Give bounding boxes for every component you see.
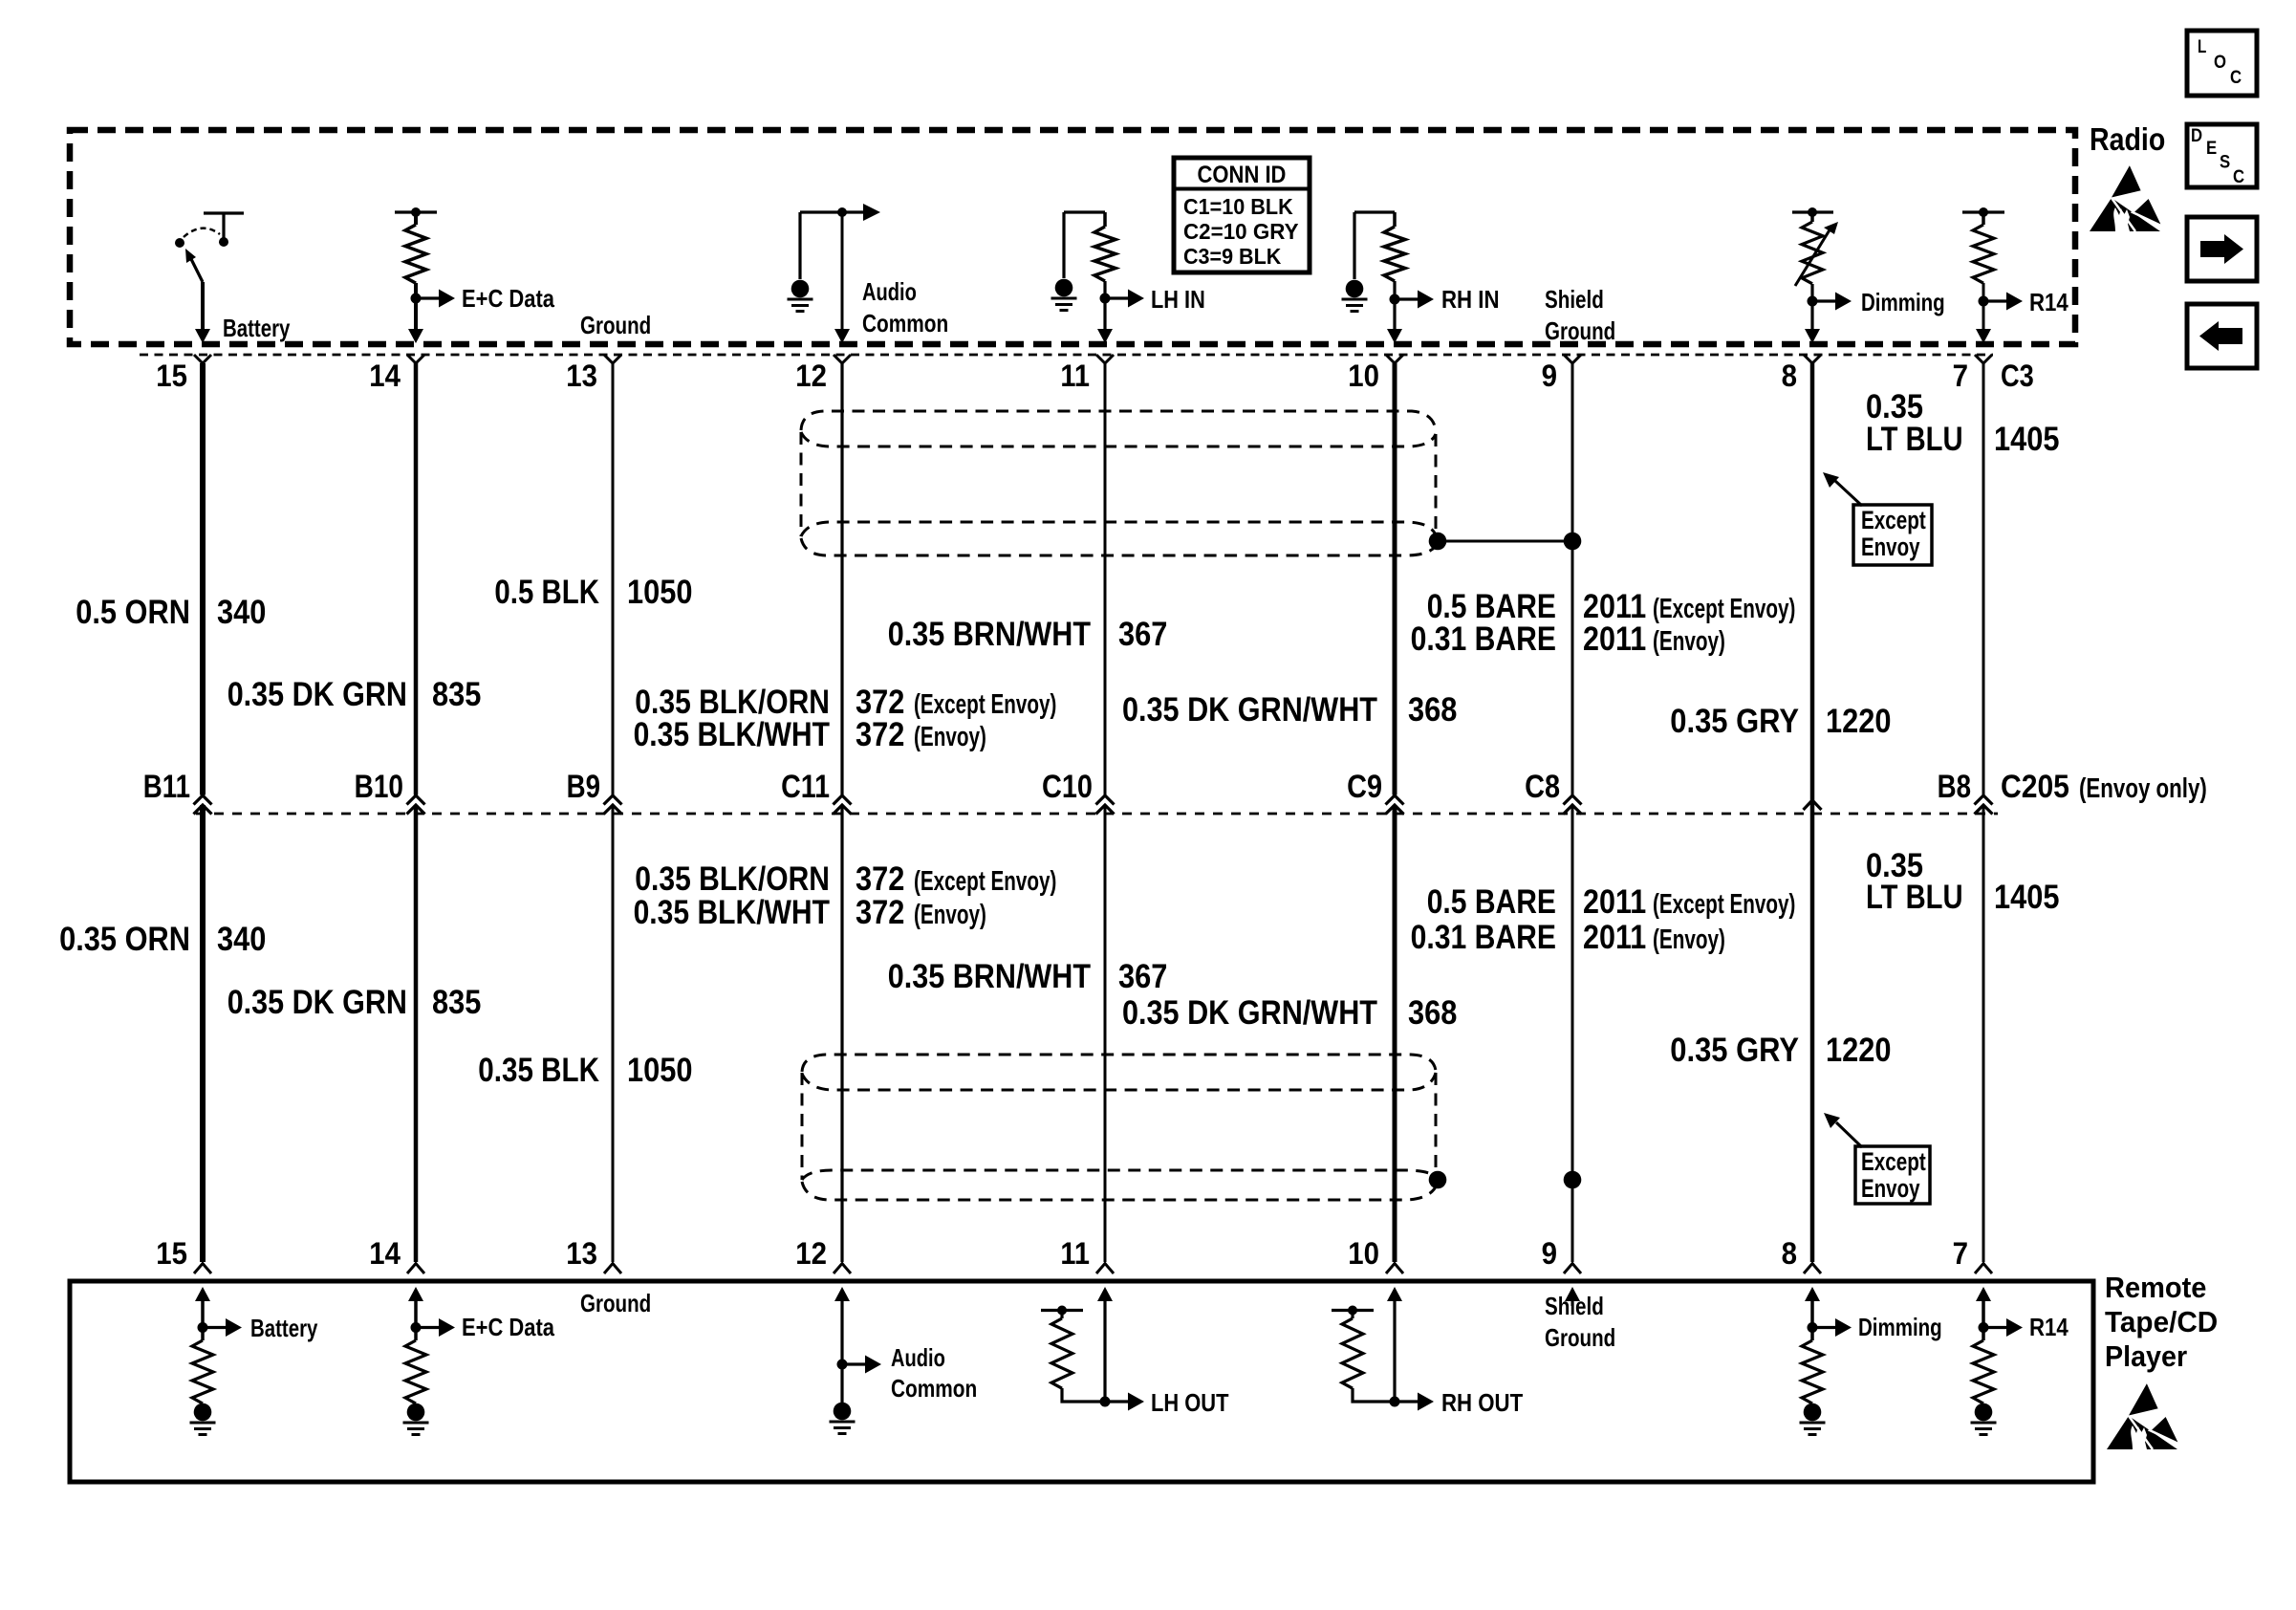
wire pin 9 C205 to player xyxy=(1571,805,1574,1262)
svg-text:11: 11 xyxy=(1060,359,1090,393)
svg-text:C1=10 BLK: C1=10 BLK xyxy=(1183,194,1293,219)
svg-text:Remote: Remote xyxy=(2105,1271,2206,1304)
resistor player E+C xyxy=(405,1340,426,1403)
wire pin 10 C205 to player xyxy=(1393,805,1397,1262)
connector chevron pin 15 (bottom) xyxy=(194,1264,211,1274)
svg-text:Except: Except xyxy=(1861,1147,1926,1176)
wire shield to pin 9 (top) xyxy=(1438,540,1572,543)
svg-text:2011: 2011 xyxy=(1583,620,1646,658)
shield drain dot (bottom) xyxy=(1429,1171,1447,1189)
Radio component dashed box xyxy=(70,130,2075,344)
Battery branch (player) xyxy=(201,1296,205,1340)
back arrow box xyxy=(2187,304,2257,368)
connector chevron pin 7 (bottom) xyxy=(1975,1264,1992,1274)
wire pin 9 radio to C205 xyxy=(1571,363,1574,795)
wire pin 12 C205 to player xyxy=(840,805,843,1262)
svg-text:Common: Common xyxy=(862,309,948,337)
dimming variable resistor (radio pin 8) xyxy=(1792,210,1833,213)
connector chevron pin 9 (bottom) xyxy=(1564,1264,1581,1274)
forward arrow box xyxy=(2187,217,2257,281)
callout arrow to wire 8 (bottom) xyxy=(1836,1122,1862,1147)
svg-text:368: 368 xyxy=(1408,994,1457,1032)
connector chevrons wire 7 (middle) xyxy=(1975,795,1993,805)
R14 resistor (radio pin 7) xyxy=(1962,210,2004,213)
svg-text:0.5 ORN: 0.5 ORN xyxy=(76,594,190,631)
svg-text:0.35 BLK/WHT: 0.35 BLK/WHT xyxy=(634,716,830,753)
wire stub player pin 9 xyxy=(1571,1296,1574,1306)
ESD sensitive symbol (player) xyxy=(2107,1382,2180,1449)
svg-text:0.35 DK GRN/WHT: 0.35 DK GRN/WHT xyxy=(1122,994,1377,1032)
svg-text:0.35 DK GRN: 0.35 DK GRN xyxy=(227,676,407,713)
connector chevron pin 14 (bottom) xyxy=(407,1264,424,1274)
connector fork pin 10 (top) xyxy=(1386,355,1403,363)
wire arrow into player pin 15 xyxy=(195,1287,210,1301)
svg-text:C11: C11 xyxy=(781,769,830,805)
wire arrow into player pin 11 xyxy=(1097,1287,1113,1301)
svg-text:C: C xyxy=(2230,68,2242,88)
ground player battery xyxy=(194,1403,212,1422)
resistor player R14 xyxy=(1973,1340,1994,1403)
svg-text:C3=9 BLK: C3=9 BLK xyxy=(1183,244,1282,269)
connector fork pin 15 (top) xyxy=(194,355,211,363)
svg-text:15: 15 xyxy=(156,1236,187,1271)
svg-text:835: 835 xyxy=(432,984,481,1021)
wire arrow into player pin 8 xyxy=(1805,1287,1820,1301)
wire pin 14 radio to C205 xyxy=(414,363,419,795)
svg-text:Envoy: Envoy xyxy=(1861,533,1920,561)
svg-text:0.35 GRY: 0.35 GRY xyxy=(1670,1032,1799,1069)
svg-text:8: 8 xyxy=(1782,1236,1797,1271)
svg-text:B9: B9 xyxy=(567,769,600,805)
svg-text:(Except Envoy): (Except Envoy) xyxy=(914,866,1056,897)
svg-text:E: E xyxy=(2206,139,2217,159)
LH IN branch arrow xyxy=(1100,294,1111,304)
junction dot on wire 9 (top) xyxy=(1564,533,1582,551)
svg-text:2011: 2011 xyxy=(1583,883,1646,921)
wire pin 15 radio to C205 xyxy=(200,363,206,795)
svg-text:(Except Envoy): (Except Envoy) xyxy=(1653,594,1795,624)
svg-text:10: 10 xyxy=(1348,359,1379,393)
LOC box xyxy=(2187,31,2257,96)
shielded cable drawing (top) xyxy=(801,411,1436,432)
connector chevron wire 8 (middle) xyxy=(1804,800,1822,810)
svg-text:367: 367 xyxy=(1118,616,1167,653)
wire pin 12 radio to C205 xyxy=(840,363,843,795)
svg-text:0.31 BARE: 0.31 BARE xyxy=(1411,919,1556,956)
svg-text:1405: 1405 xyxy=(1994,421,2060,458)
svg-text:L: L xyxy=(2198,37,2207,57)
svg-text:S: S xyxy=(2220,153,2230,173)
connector chevrons wire 9 (middle) xyxy=(1564,795,1582,805)
connector chevrons wire 10 (middle) xyxy=(1386,795,1404,805)
svg-text:9: 9 xyxy=(1542,1236,1557,1271)
svg-text:10: 10 xyxy=(1348,1236,1379,1271)
wire pin 10 radio to C205 xyxy=(1393,363,1397,795)
R14 branch arrow xyxy=(1979,296,1989,307)
svg-text:0.35 ORN: 0.35 ORN xyxy=(59,921,190,958)
Except Envoy callout box (top) xyxy=(1853,505,1932,565)
svg-text:B11: B11 xyxy=(143,769,190,805)
svg-text:Shield: Shield xyxy=(1545,1292,1604,1320)
wire arrow into player pin 14 xyxy=(408,1287,423,1301)
svg-text:CONN ID: CONN ID xyxy=(1198,162,1287,188)
DESC box xyxy=(2187,124,2257,187)
svg-text:14: 14 xyxy=(369,359,401,393)
resistor player dimming xyxy=(1802,1340,1823,1403)
svg-text:0.35 DK GRN: 0.35 DK GRN xyxy=(227,984,407,1021)
svg-text:12: 12 xyxy=(795,359,827,393)
RH IN branch arrow xyxy=(1390,294,1400,305)
connector chevrons wire 13 (middle) xyxy=(604,795,622,805)
svg-text:0.35 BLK/WHT: 0.35 BLK/WHT xyxy=(634,894,830,931)
shield drain dot (top) xyxy=(1429,533,1447,551)
svg-text:E+C Data: E+C Data xyxy=(462,284,554,313)
svg-text:Radio: Radio xyxy=(2090,121,2165,157)
svg-text:372: 372 xyxy=(856,894,904,931)
ground player R14 xyxy=(1975,1403,1993,1422)
svg-text:11: 11 xyxy=(1060,1236,1090,1271)
svg-text:Except: Except xyxy=(1861,506,1926,534)
Radio connector dashed line (top) xyxy=(140,354,1993,357)
svg-text:C8: C8 xyxy=(1525,769,1560,805)
shielded cable drawing (bottom) xyxy=(802,1055,1436,1072)
svg-text:Audio: Audio xyxy=(891,1343,945,1372)
svg-text:13: 13 xyxy=(566,359,597,393)
Dimming branch (player pin 8) xyxy=(1810,1296,1814,1340)
audio common ground (radio) xyxy=(798,212,801,279)
svg-text:0.35 BRN/WHT: 0.35 BRN/WHT xyxy=(888,616,1091,653)
CONN ID table box xyxy=(1174,158,1310,272)
svg-text:0.35 BRN/WHT: 0.35 BRN/WHT xyxy=(888,958,1091,995)
svg-text:372: 372 xyxy=(856,860,904,898)
svg-text:15: 15 xyxy=(156,359,187,393)
E+C Data branch (player) xyxy=(414,1296,418,1340)
svg-text:LT BLU: LT BLU xyxy=(1866,879,1963,916)
svg-text:Envoy: Envoy xyxy=(1861,1174,1920,1203)
svg-text:LH OUT: LH OUT xyxy=(1151,1388,1229,1417)
svg-text:Battery: Battery xyxy=(250,1314,318,1342)
connector fork pin 8 (top) xyxy=(1804,355,1821,363)
connector chevrons wire 11 (middle) xyxy=(1096,795,1115,805)
svg-text:367: 367 xyxy=(1118,958,1167,995)
connector fork pin 11 (top) xyxy=(1096,355,1114,363)
Except Envoy callout box (bottom) xyxy=(1855,1146,1930,1204)
C205 inline connector dashed line xyxy=(196,813,1998,816)
svg-text:0.5 BARE: 0.5 BARE xyxy=(1427,883,1556,921)
svg-text:0.35 GRY: 0.35 GRY xyxy=(1670,703,1799,740)
wire arrow into player pin 12 xyxy=(834,1287,850,1301)
RH OUT resistor network (player pin 10) xyxy=(1332,1309,1374,1312)
svg-text:(Envoy): (Envoy) xyxy=(914,900,986,930)
svg-text:B10: B10 xyxy=(355,769,403,805)
wire arrow out of radio pin 14 xyxy=(408,329,423,343)
svg-text:Dimming: Dimming xyxy=(1861,288,1945,316)
svg-text:B8: B8 xyxy=(1938,769,1971,805)
svg-text:(Envoy): (Envoy) xyxy=(914,722,986,752)
connector chevron pin 8 (bottom) xyxy=(1804,1264,1821,1274)
svg-text:Ground: Ground xyxy=(1545,316,1615,345)
svg-text:340: 340 xyxy=(217,594,266,631)
shield ground dot on wire 9 (bottom) xyxy=(1564,1171,1582,1189)
svg-text:Player: Player xyxy=(2105,1339,2187,1373)
svg-text:O: O xyxy=(2214,53,2226,73)
connector fork pin 7 (top) xyxy=(1975,355,1992,363)
svg-text:(Except Envoy): (Except Envoy) xyxy=(1653,889,1795,920)
wire arrow into player pin 10 xyxy=(1387,1287,1402,1301)
svg-text:C2=10 GRY: C2=10 GRY xyxy=(1183,219,1299,244)
wire pin 14 C205 to player xyxy=(414,805,419,1262)
svg-text:0.31 BARE: 0.31 BARE xyxy=(1411,620,1556,658)
Dimming branch arrow xyxy=(1808,296,1818,307)
svg-text:Common: Common xyxy=(891,1374,977,1403)
svg-text:C10: C10 xyxy=(1042,769,1093,805)
wire radio pin 15 internal xyxy=(201,282,205,337)
wire pin 15 C205 to player xyxy=(200,805,206,1262)
ground player audio common xyxy=(834,1403,852,1421)
svg-text:368: 368 xyxy=(1408,691,1457,729)
wire + arrow Audio Common (radio pin 12) xyxy=(800,210,863,213)
LH OUT branch arrow xyxy=(1100,1397,1111,1407)
svg-text:1220: 1220 xyxy=(1826,1032,1892,1069)
svg-text:1405: 1405 xyxy=(1994,879,2060,916)
svg-text:Audio: Audio xyxy=(862,277,917,306)
connector fork pin 9 (top) xyxy=(1564,355,1581,363)
Remote Tape/CD Player box xyxy=(70,1281,2093,1482)
svg-text:0.35 BLK/ORN: 0.35 BLK/ORN xyxy=(635,860,830,898)
svg-text:(Envoy): (Envoy) xyxy=(1653,626,1725,657)
svg-text:(Except Envoy): (Except Envoy) xyxy=(914,689,1056,720)
connector chevrons wire 12 (middle) xyxy=(834,795,852,805)
connector fork pin 14 (top) xyxy=(407,355,424,363)
svg-text:LT BLU: LT BLU xyxy=(1866,421,1963,458)
connector chevron pin 11 (bottom) xyxy=(1096,1264,1114,1274)
svg-text:0.35 BLK: 0.35 BLK xyxy=(478,1052,599,1089)
R14 branch (player pin 7) xyxy=(1982,1296,1985,1340)
svg-text:C3: C3 xyxy=(2001,359,2034,393)
svg-text:0.5 BLK: 0.5 BLK xyxy=(494,574,599,611)
svg-text:Shield: Shield xyxy=(1545,285,1604,314)
svg-text:RH OUT: RH OUT xyxy=(1441,1388,1523,1417)
svg-text:Battery: Battery xyxy=(223,314,291,342)
RH IN input resistor + ground (radio pin 10) xyxy=(1354,212,1395,279)
svg-text:0.35 DK GRN/WHT: 0.35 DK GRN/WHT xyxy=(1122,691,1377,729)
ground player E+C xyxy=(407,1403,425,1422)
svg-text:E+C Data: E+C Data xyxy=(462,1313,554,1341)
svg-text:7: 7 xyxy=(1953,359,1968,393)
resistor player battery xyxy=(192,1340,213,1403)
wire arrow into player pin 7 xyxy=(1976,1287,1991,1301)
svg-text:C9: C9 xyxy=(1347,769,1382,805)
ground player dimming xyxy=(1804,1403,1822,1422)
svg-text:D: D xyxy=(2191,126,2202,146)
connector chevron pin 10 (bottom) xyxy=(1386,1264,1403,1274)
svg-text:(Envoy only): (Envoy only) xyxy=(2079,773,2207,804)
svg-text:1050: 1050 xyxy=(627,1052,693,1089)
svg-text:(Envoy): (Envoy) xyxy=(1653,925,1725,955)
svg-text:7: 7 xyxy=(1953,1236,1968,1271)
svg-text:C: C xyxy=(2233,167,2244,187)
svg-text:RH IN: RH IN xyxy=(1441,285,1500,314)
svg-text:Ground: Ground xyxy=(580,311,651,339)
svg-text:1220: 1220 xyxy=(1826,703,1892,740)
svg-text:8: 8 xyxy=(1782,359,1797,393)
wire pin 11 C205 to player xyxy=(1104,805,1107,1262)
svg-text:13: 13 xyxy=(566,1236,597,1271)
svg-text:Tape/CD: Tape/CD xyxy=(2105,1305,2218,1338)
svg-text:14: 14 xyxy=(369,1236,401,1271)
connector chevron pin 13 (bottom) xyxy=(604,1264,621,1274)
svg-text:1050: 1050 xyxy=(627,574,693,611)
ESD sensitive symbol (radio) xyxy=(2090,163,2163,231)
svg-text:Ground: Ground xyxy=(1545,1323,1615,1352)
LH IN input resistor + ground (radio pin 11) xyxy=(1064,212,1105,278)
connector chevrons wire 15 (middle) xyxy=(194,795,212,805)
wire pin 7 radio to C205 xyxy=(1982,363,1985,795)
battery switch SW (radio pin 15) xyxy=(204,213,244,239)
resistor radio E+C Data xyxy=(395,210,437,213)
connector chevrons wire 14 (middle) xyxy=(407,795,425,805)
svg-text:340: 340 xyxy=(217,921,266,958)
svg-text:R14: R14 xyxy=(2029,288,2069,316)
svg-text:12: 12 xyxy=(795,1236,827,1271)
connector fork pin 12 (top) xyxy=(834,355,851,363)
connector fork pin 13 (top) xyxy=(604,355,621,363)
svg-text:Ground: Ground xyxy=(580,1289,651,1317)
wire pin 13 radio to C205 xyxy=(612,363,615,795)
E+C Data branch arrow xyxy=(411,294,422,304)
wire pin 7 C205 to player xyxy=(1982,805,1985,1262)
svg-text:9: 9 xyxy=(1542,359,1557,393)
Audio Common branch (player pin 12) xyxy=(840,1296,843,1403)
svg-text:R14: R14 xyxy=(2029,1313,2069,1341)
wire pin 13 C205 to player xyxy=(612,805,615,1262)
svg-text:2011: 2011 xyxy=(1583,919,1646,956)
LH OUT resistor network (player pin 11) xyxy=(1041,1309,1083,1312)
wire pin 11 radio to C205 xyxy=(1104,363,1107,795)
svg-text:372: 372 xyxy=(856,716,904,753)
svg-text:LH IN: LH IN xyxy=(1151,285,1205,314)
callout arrow to wire 8 (top) xyxy=(1835,481,1862,506)
svg-text:Dimming: Dimming xyxy=(1858,1313,1942,1341)
svg-text:C205: C205 xyxy=(2001,769,2069,805)
RH OUT branch arrow xyxy=(1390,1397,1400,1407)
connector chevron pin 12 (bottom) xyxy=(834,1264,851,1274)
wire arrow into player pin 9 xyxy=(1565,1287,1580,1301)
wire pin 8 radio to C205 xyxy=(1810,363,1815,1262)
svg-text:835: 835 xyxy=(432,676,481,713)
